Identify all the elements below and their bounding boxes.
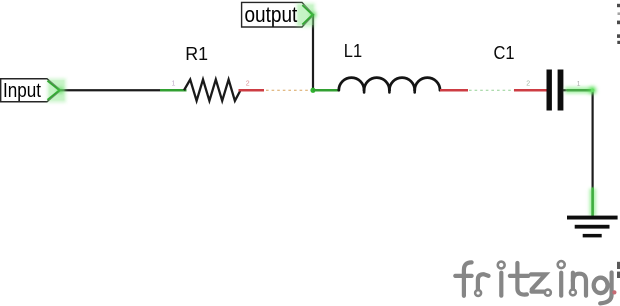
svg-text:Input: Input bbox=[3, 80, 41, 102]
svg-text:1: 1 bbox=[577, 81, 581, 88]
svg-text:output: output bbox=[245, 2, 298, 27]
svg-text:1: 1 bbox=[172, 81, 176, 88]
svg-text:R1: R1 bbox=[185, 43, 208, 64]
svg-text:C1: C1 bbox=[494, 42, 515, 63]
svg-text:L1: L1 bbox=[344, 40, 362, 61]
svg-text:2: 2 bbox=[246, 81, 250, 88]
svg-text:2: 2 bbox=[526, 81, 530, 88]
